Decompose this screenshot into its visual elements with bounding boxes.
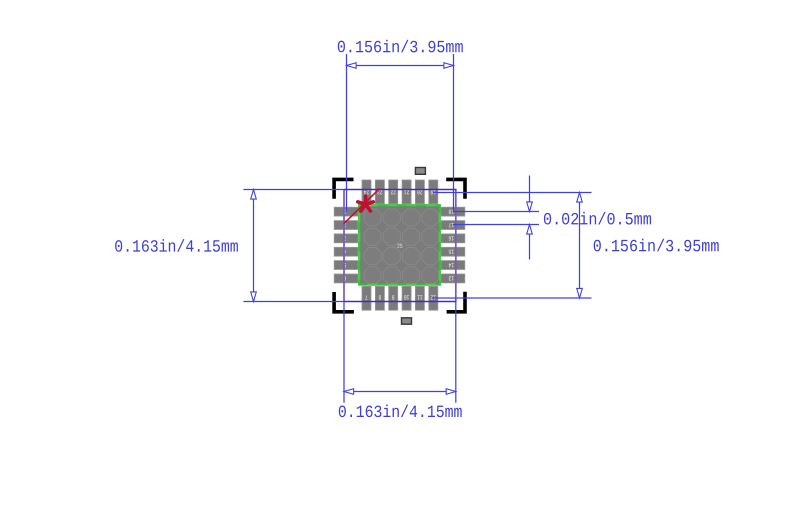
bottom dim extension line left <box>343 302 345 403</box>
right dim arrow up <box>577 193 583 203</box>
svg-text:11: 11 <box>417 293 423 300</box>
pad 24 (top row) <box>362 180 371 204</box>
pad 2 (left column) <box>334 221 358 230</box>
svg-text:9: 9 <box>392 293 395 300</box>
left dim arrow down <box>251 292 257 302</box>
pad 16 (right column) <box>441 234 465 243</box>
pad 22 (top row) <box>389 180 398 204</box>
left dim line <box>253 190 255 302</box>
pitch dim lower line <box>529 225 531 260</box>
pad 15 (right column) <box>441 247 465 256</box>
pad 1 (left column) <box>334 207 358 216</box>
svg-text:7: 7 <box>365 293 368 300</box>
silkscreen bracket top-left <box>334 179 353 198</box>
pad 20 (top row) <box>415 180 424 204</box>
bottom dim arrow right <box>446 389 456 395</box>
pad 5 (left column) <box>334 261 358 270</box>
left dim extension top over courtyard <box>344 189 457 191</box>
pin 1 asterisk marker <box>358 196 374 211</box>
bottom dim arrow left <box>344 389 354 395</box>
silkscreen bracket bottom-right <box>447 292 465 312</box>
svg-text:0.02in/0.5mm: 0.02in/0.5mm <box>543 211 652 230</box>
pad 23 (top row) <box>375 180 384 204</box>
svg-text:16: 16 <box>448 234 454 241</box>
pad 8 (bottom row) <box>375 286 384 310</box>
orientation mark top <box>415 168 425 175</box>
thermal pad paste octagon grid <box>364 209 439 284</box>
right dim extension line top <box>433 192 591 194</box>
pitch dim extension line lower <box>453 224 539 226</box>
pad 7 (bottom row) <box>362 286 371 310</box>
pad 4 (left column) <box>334 247 358 256</box>
pitch dim upper line <box>529 176 531 212</box>
pad 9 (bottom row) <box>389 286 398 310</box>
silkscreen bracket bottom-left <box>334 292 354 312</box>
silkscreen bracket top-right <box>446 179 465 198</box>
top dim arrow right <box>444 63 454 69</box>
svg-text:10: 10 <box>404 293 410 300</box>
svg-text:13: 13 <box>448 274 454 281</box>
pitch dim arrow down <box>527 202 533 212</box>
pin 1 red diagonal line <box>344 189 380 224</box>
top dim extension line right <box>453 54 455 212</box>
bottom dim line <box>344 391 456 393</box>
pad 13 (right column) <box>441 274 465 283</box>
pad 19 (top row) <box>429 180 438 204</box>
right dim line <box>579 193 581 299</box>
pitch dim extension line upper <box>453 211 539 213</box>
svg-text:0.163in/4.15mm: 0.163in/4.15mm <box>114 239 239 258</box>
svg-text:8: 8 <box>378 293 381 300</box>
thermal pad green outline <box>359 205 440 284</box>
svg-text:25: 25 <box>397 243 403 250</box>
svg-text:0.163in/4.15mm: 0.163in/4.15mm <box>338 404 463 423</box>
svg-text:15: 15 <box>448 248 454 255</box>
left dim extension line bottom <box>243 301 344 303</box>
bottom dim extension line right <box>455 302 457 403</box>
pitch dim arrow up <box>527 225 533 235</box>
thermal pad 25 body <box>359 205 440 284</box>
pad 11 (bottom row) <box>415 286 424 310</box>
right dim extension line bottom <box>432 297 591 299</box>
orientation mark bottom <box>402 318 412 324</box>
top dim extension line left <box>346 54 348 212</box>
courtyard right edge <box>455 189 457 301</box>
pad 21 (top row) <box>402 180 411 204</box>
svg-text:12: 12 <box>430 293 436 300</box>
svg-text:0.156in/3.95mm: 0.156in/3.95mm <box>337 39 464 58</box>
svg-text:14: 14 <box>448 261 454 268</box>
top dim arrow left <box>347 63 357 69</box>
right dim arrow down <box>577 288 583 298</box>
left dim arrow up <box>251 190 257 200</box>
pad 3 (left column) <box>334 234 358 243</box>
courtyard left edge <box>343 189 345 301</box>
left dim extension bottom over courtyard <box>344 301 457 303</box>
pad 17 (right column) <box>441 221 465 230</box>
pad 18 (right column) <box>441 207 465 216</box>
svg-text:0.156in/3.95mm: 0.156in/3.95mm <box>593 238 720 257</box>
top dim line <box>347 65 454 67</box>
pad 14 (right column) <box>441 261 465 270</box>
pad 12 (bottom row) <box>429 286 438 310</box>
left dim extension line top <box>243 189 344 191</box>
pad 10 (bottom row) <box>402 286 411 310</box>
pad 6 (left column) <box>334 274 358 283</box>
